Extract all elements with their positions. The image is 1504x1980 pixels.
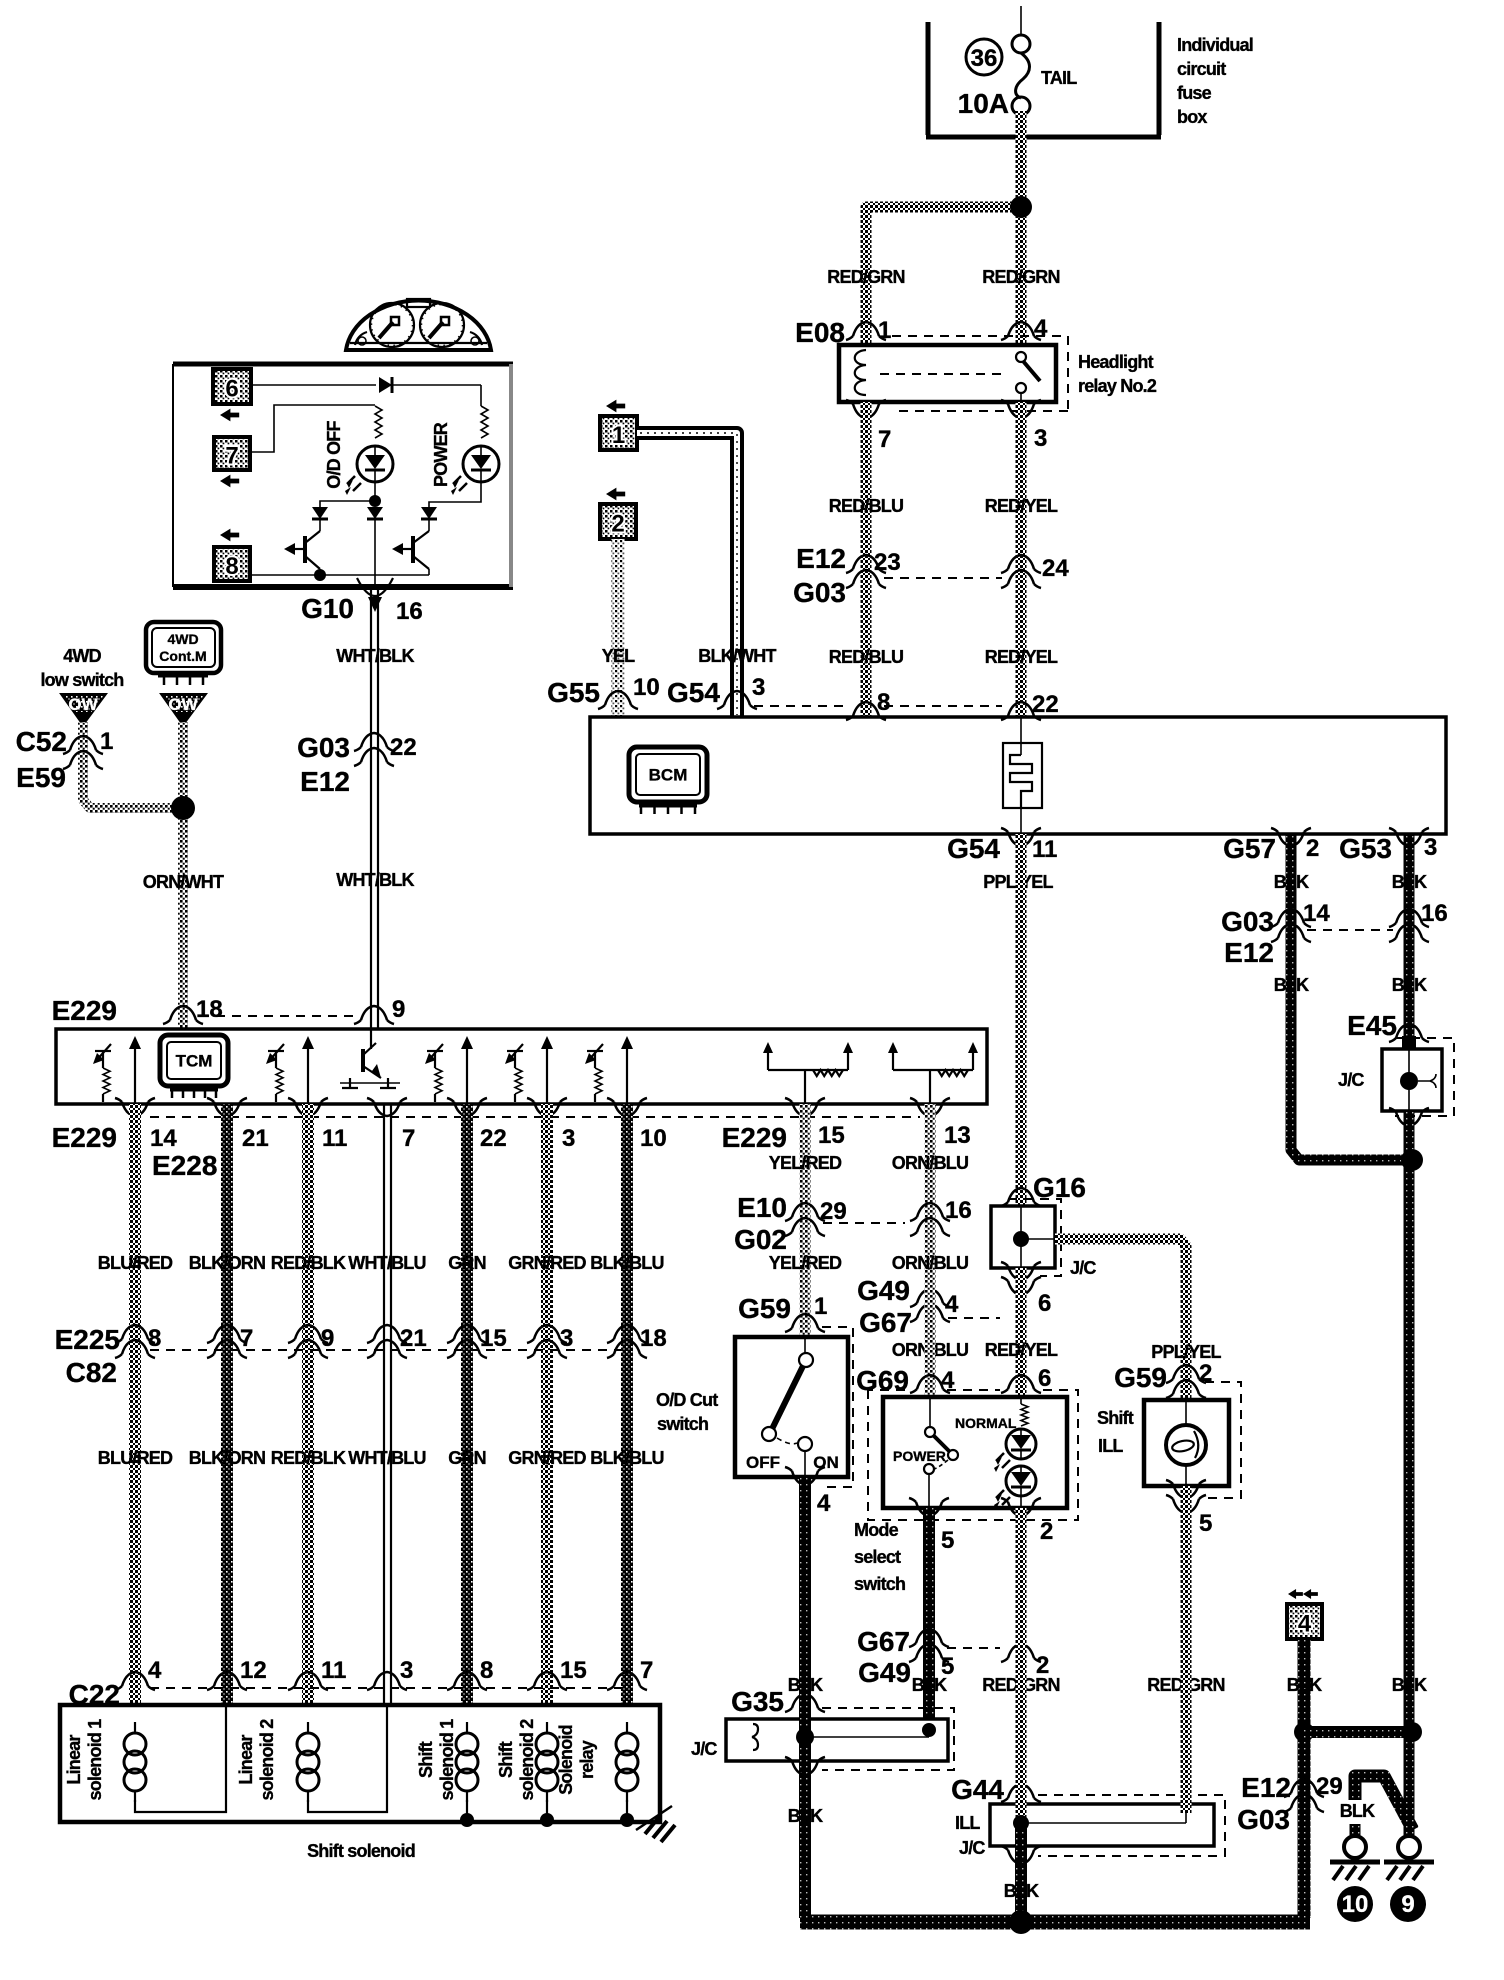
svg-text:BLK/ORN: BLK/ORN (189, 1448, 265, 1468)
wire RED/BLU relay to BCM (861, 402, 872, 717)
dashed outline headlight relay (892, 336, 1068, 411)
ground bus wire (800, 1915, 1310, 1930)
E45 internal wire and junction (1400, 1049, 1436, 1111)
junction 4WD wires (171, 796, 195, 820)
svg-text:7: 7 (225, 443, 238, 470)
wire YEL/RED TCM-15 to O/D cut (800, 1104, 811, 1337)
svg-text:C82: C82 (66, 1357, 117, 1388)
solenoid labels (rotated) (64, 1719, 597, 1801)
svg-text:RED/BLK: RED/BLK (271, 1448, 346, 1468)
svg-text:4: 4 (945, 1291, 959, 1318)
svg-text:5: 5 (941, 1527, 954, 1554)
connector C52/E59 pin 1 (16, 726, 114, 793)
connector E229/E228 pin 10 (607, 1098, 667, 1152)
svg-text:4: 4 (148, 1657, 162, 1684)
connector G54 pin 3 (667, 674, 765, 709)
connector G69 pin 6 (1001, 1365, 1051, 1393)
connector G03/E12 pin 16 (1389, 900, 1448, 942)
svg-text:OW: OW (68, 695, 98, 714)
G16 J/C box (991, 1206, 1055, 1268)
label G03 E12 right (1221, 906, 1274, 968)
svg-text:8: 8 (225, 553, 238, 580)
connector E229/E228 pin 7 (367, 1098, 415, 1152)
wire BLK G57-2 to corner (1291, 834, 1404, 1160)
chassis hatch bottom right (636, 1806, 675, 1842)
svg-text:10: 10 (633, 674, 660, 701)
wire BLK mode-5 to G35 (923, 1508, 935, 1730)
wire solenoid column x=467 (461, 1104, 473, 1705)
connector 8 (cluster) (214, 547, 250, 581)
solenoid common rail dots (460, 1800, 634, 1827)
connector below O/D pin 4 (785, 1467, 831, 1517)
O/D OFF LED (345, 446, 393, 495)
svg-text:E12: E12 (1224, 937, 1274, 968)
connector 2 (600, 488, 636, 539)
connector G03/E12 pin 22 (297, 732, 417, 797)
svg-text:switch: switch (854, 1574, 905, 1594)
wire WHT/BLK cluster to TCM (double line) (371, 587, 378, 1029)
ground branch hook to bulb 10 (1355, 1776, 1413, 1830)
svg-text:YEL: YEL (602, 646, 635, 666)
wire color labels row2 (98, 1448, 664, 1468)
labels YEL/RED ORN/BLU (769, 1153, 968, 1173)
svg-text:Individual: Individual (1177, 35, 1253, 55)
svg-text:E59: E59 (16, 762, 66, 793)
mode select switch box (883, 1397, 1067, 1508)
svg-text:2: 2 (1306, 835, 1319, 862)
svg-text:O/D Cut: O/D Cut (656, 1390, 718, 1410)
connector E12/G03 pin 23 (846, 549, 901, 588)
wire PPL/YEL BCM to G16 (1016, 834, 1027, 1205)
transistor left (O/D) (284, 519, 320, 575)
fuse 36 10A TAIL (958, 6, 1078, 119)
dashed link below TCM (150, 1116, 920, 1118)
svg-text:4: 4 (817, 1490, 831, 1517)
svg-text:E228: E228 (152, 1150, 217, 1181)
connector E225/C82 pin 9 (288, 1325, 334, 1358)
label Shift ILL (1097, 1408, 1134, 1456)
dashed link 23-24 (884, 577, 1002, 579)
connector hat below E45 (1389, 1108, 1429, 1126)
svg-text:22: 22 (480, 1125, 507, 1152)
svg-text:G03: G03 (297, 732, 350, 763)
linear solenoid 2 coil (297, 1722, 319, 1802)
BCM internal component (1003, 717, 1042, 834)
instrument cluster icon (346, 299, 491, 350)
svg-text:BLK: BLK (1392, 872, 1427, 892)
relay switch (1016, 352, 1040, 402)
G35 internals (752, 1723, 936, 1750)
svg-text:PPL/YEL: PPL/YEL (1151, 1342, 1221, 1362)
connector E229/E228 pin 21 (207, 1098, 269, 1152)
svg-text:RED/GRN: RED/GRN (982, 267, 1059, 287)
connector E08 pin 3 (1001, 400, 1047, 452)
svg-text:8: 8 (877, 689, 890, 716)
wire from 8 to transistors (250, 569, 429, 581)
arrow below 6 (220, 409, 239, 422)
4WD Cont.M module (146, 622, 221, 685)
junction E45/G57 wires (1401, 1149, 1423, 1171)
wire RED/GRN branch to relay pin1 (866, 207, 1021, 345)
wire solenoid column x=627 (621, 1104, 633, 1705)
wire RED/GRN mode-2 into ILL J/C (1016, 1508, 1027, 1823)
connector pin 8 (BCM top) (846, 689, 890, 720)
svg-text:RED/BLU: RED/BLU (829, 496, 903, 516)
svg-text:G54: G54 (947, 833, 1000, 864)
svg-text:E12: E12 (796, 543, 846, 574)
svg-text:12: 12 (240, 1657, 267, 1684)
connector E225/C82 pin 15 (447, 1325, 507, 1358)
svg-text:solenoid 1: solenoid 1 (437, 1719, 457, 1801)
labels ILL J/C (955, 1813, 985, 1858)
svg-text:ORN/WHT: ORN/WHT (143, 872, 224, 892)
svg-text:1: 1 (814, 1293, 827, 1320)
svg-text:11: 11 (322, 1125, 347, 1152)
connector E225/C82 pin 7 (207, 1325, 253, 1358)
connector hat above E45 (1389, 1024, 1429, 1042)
svg-text:Linear: Linear (64, 1735, 84, 1785)
stub to bulb 10 (1350, 1824, 1361, 1838)
connector C22 pin 3 (367, 1657, 413, 1690)
wire BLK G53-3 to E45 (1404, 834, 1415, 1049)
svg-text:E229: E229 (52, 995, 117, 1026)
svg-text:Shift: Shift (416, 1741, 436, 1778)
dashed link 18-9 (200, 1015, 356, 1017)
TCM sensor resistors pins 15/13 (763, 1042, 853, 1104)
label 4WD low switch (40, 646, 123, 690)
svg-text:14: 14 (150, 1125, 177, 1152)
shift ILL box (1144, 1400, 1229, 1486)
svg-text:TCM: TCM (176, 1052, 213, 1071)
svg-text:BLK: BLK (788, 1806, 823, 1826)
TCM box (56, 1029, 987, 1104)
wire PPL/YEL G16 branch to shift ILL (1055, 1239, 1186, 1400)
svg-text:G59: G59 (738, 1293, 791, 1324)
svg-text:G69: G69 (856, 1365, 909, 1396)
dashed link G69 4-6 (947, 1389, 1000, 1391)
G44 dashed outline (1038, 1795, 1225, 1856)
svg-text:1: 1 (100, 728, 113, 755)
svg-text:relay No.2: relay No.2 (1078, 376, 1157, 396)
svg-text:BLK/WHT: BLK/WHT (698, 646, 776, 666)
svg-text:G49: G49 (858, 1657, 911, 1688)
svg-text:G10: G10 (301, 593, 354, 624)
connector E08 pin 4 (1001, 315, 1048, 342)
ground bulb 10 (1330, 1836, 1380, 1880)
dashed link G54-3 to 8 to 22 (754, 705, 848, 707)
ground id 9 (1390, 1886, 1426, 1922)
wire BLK E45 to grounds (1404, 1111, 1415, 1838)
svg-text:6: 6 (1038, 1290, 1051, 1317)
svg-text:YEL/RED: YEL/RED (769, 1253, 842, 1273)
dashed link 14-16 (1307, 929, 1393, 931)
connector G54 pin 11 (BCM bottom) (947, 828, 1057, 864)
svg-text:8: 8 (148, 1325, 161, 1352)
svg-text:POWER: POWER (893, 1448, 946, 1464)
svg-text:G59: G59 (1114, 1362, 1167, 1393)
svg-text:BLK/ORN: BLK/ORN (189, 1253, 265, 1273)
svg-text:G35: G35 (731, 1686, 784, 1717)
connector E229/E228 pin 14 (115, 1098, 177, 1152)
svg-text:OFF: OFF (746, 1453, 780, 1472)
connector G44 hat (1001, 1784, 1041, 1802)
svg-text:9: 9 (321, 1325, 334, 1352)
mode select LED2 (994, 1466, 1036, 1509)
svg-text:ORN/BLU: ORN/BLU (892, 1153, 968, 1173)
wire RED/GRN fuse to relay pin4 (1016, 111, 1027, 345)
connector C22 pin 8 (447, 1657, 493, 1690)
labels POWER NORMAL (893, 1415, 1017, 1464)
BCM box (590, 717, 1446, 834)
ground id 10 (1337, 1886, 1373, 1922)
wire color labels row1 (98, 1253, 664, 1273)
svg-text:10A: 10A (958, 88, 1009, 119)
svg-text:G55: G55 (547, 677, 600, 708)
svg-text:ORN/BLU: ORN/BLU (892, 1253, 968, 1273)
svg-text:23: 23 (874, 549, 901, 576)
wire solenoid column x=547 (541, 1104, 553, 1705)
svg-text:E229: E229 (52, 1122, 117, 1153)
E45 dashed outline (1395, 1038, 1454, 1116)
connector G67/G49 pin 5 (857, 1626, 954, 1688)
arrow below 7 (220, 475, 239, 488)
svg-text:14: 14 (1303, 900, 1330, 927)
shift ILL lamp (1166, 1400, 1206, 1486)
svg-text:11: 11 (321, 1657, 346, 1684)
svg-text:2: 2 (1040, 1518, 1053, 1545)
connector E229/E228 pin 3 (527, 1098, 575, 1152)
svg-text:4: 4 (1034, 315, 1048, 342)
label: Individual circuit fuse box (1177, 35, 1253, 127)
svg-text:OW: OW (168, 695, 198, 714)
svg-text:3: 3 (1424, 834, 1437, 861)
wire WHT/BLU (double line) (384, 1104, 391, 1815)
svg-text:E225: E225 (55, 1324, 120, 1355)
svg-text:6: 6 (1038, 1365, 1051, 1392)
connector G16 hat above J/C (1001, 1188, 1041, 1206)
svg-text:BLK: BLK (912, 1675, 947, 1695)
svg-text:24: 24 (1042, 555, 1069, 582)
svg-text:7: 7 (240, 1325, 253, 1352)
wire BLK connector4 to bus (1298, 1639, 1311, 1918)
svg-text:10: 10 (640, 1125, 667, 1152)
svg-text:3: 3 (752, 674, 765, 701)
connector C22 pin 4 (115, 1657, 162, 1690)
svg-text:Shift solenoid: Shift solenoid (307, 1841, 415, 1861)
4WD Cont.M pigtail OW (161, 694, 206, 725)
svg-text:21: 21 (242, 1125, 269, 1152)
svg-text:G49: G49 (857, 1275, 910, 1306)
connector C22 pin 11 (288, 1657, 346, 1690)
svg-text:RED/GRN: RED/GRN (827, 267, 904, 287)
wire from 4WD low switch (83, 722, 183, 808)
dashed link 29-16 (823, 1222, 905, 1224)
svg-text:G67: G67 (857, 1626, 910, 1657)
svg-text:2: 2 (611, 511, 624, 538)
svg-text:3: 3 (562, 1125, 575, 1152)
connector 4 (1287, 1589, 1322, 1639)
svg-text:5: 5 (1199, 1510, 1212, 1537)
connector E229 pin 18 (52, 995, 223, 1026)
svg-text:13: 13 (944, 1122, 971, 1149)
O/D OFF resistor (375, 406, 382, 438)
svg-text:1: 1 (612, 422, 625, 449)
ILL J/C internals (1013, 1813, 1186, 1831)
svg-text:box: box (1177, 107, 1207, 127)
dashed link 4-6 (948, 1317, 1000, 1319)
O/D branch node and diodes (312, 482, 383, 587)
ground bulb 9 (1384, 1836, 1434, 1880)
label Mode select switch (854, 1520, 905, 1594)
svg-text:BLK: BLK (1274, 872, 1309, 892)
connector pin 9 (TCM top) (354, 996, 405, 1024)
svg-text:3: 3 (400, 1657, 413, 1684)
svg-text:BCM: BCM (649, 766, 688, 785)
svg-text:29: 29 (1316, 1773, 1343, 1800)
svg-text:BLU/RED: BLU/RED (98, 1448, 173, 1468)
svg-text:RED/YEL: RED/YEL (985, 647, 1058, 667)
label headlight relay No.2 (1078, 352, 1157, 396)
connector E229/E228 pin 22 (447, 1098, 507, 1152)
dashed link C22 (150, 1687, 627, 1689)
svg-text:G54: G54 (667, 677, 720, 708)
connector G53 pin 3 (BCM bottom) (1339, 828, 1437, 864)
TCM driver transistors (93, 1036, 141, 1104)
connector C22 pin 12 (207, 1657, 267, 1690)
connector 1 (600, 400, 637, 450)
svg-text:7: 7 (640, 1657, 653, 1684)
svg-text:GRN/RED: GRN/RED (508, 1448, 586, 1468)
connector C22 pin 7 (607, 1657, 653, 1690)
labels OFF ON (746, 1453, 839, 1472)
svg-text:solenoid 1: solenoid 1 (85, 1719, 105, 1801)
svg-text:circuit: circuit (1177, 59, 1226, 79)
E45 J/C box (1382, 1049, 1442, 1111)
dashed link E225/C82 (150, 1349, 627, 1351)
connector G59 pin 1 (738, 1293, 827, 1332)
connector G03/E12 pin 14 (1271, 900, 1330, 942)
svg-text:15: 15 (818, 1122, 845, 1149)
svg-text:29: 29 (820, 1198, 847, 1225)
connector E225/C82 pin 21 (367, 1325, 427, 1358)
svg-text:YEL/RED: YEL/RED (769, 1153, 842, 1173)
labels ORN/BLU RED/YEL (892, 1340, 1058, 1360)
svg-text:WHT/BLU: WHT/BLU (348, 1448, 425, 1468)
svg-text:low switch: low switch (40, 670, 123, 690)
TCM input transistor (WHT/BLK) (340, 1029, 400, 1088)
shift solenoid 2 coil (536, 1722, 558, 1802)
svg-text:TAIL: TAIL (1041, 68, 1077, 88)
linear solenoid 1 coil (124, 1722, 146, 1802)
svg-text:G57: G57 (1223, 833, 1276, 864)
svg-text:G67: G67 (859, 1307, 912, 1338)
connector row E225/C82 (55, 1324, 120, 1388)
svg-text:G44: G44 (951, 1774, 1004, 1805)
connector E225/C82 pin 3 (527, 1325, 573, 1358)
connector G57 pin 2 (BCM bottom) (1223, 828, 1319, 864)
O/D cut switch box (735, 1337, 848, 1477)
svg-text:4WD: 4WD (63, 646, 101, 666)
svg-text:E12: E12 (1241, 1772, 1291, 1803)
svg-text:switch: switch (657, 1414, 708, 1434)
connector E229/E228 pin 11 (288, 1098, 347, 1152)
combination meter box (173, 364, 513, 587)
junction E45 wire low (1402, 1722, 1422, 1742)
svg-text:4: 4 (1298, 1611, 1312, 1638)
connector G55 pin 10 (547, 674, 660, 709)
connector 7 (cluster) (214, 437, 250, 470)
shift solenoid box (60, 1705, 660, 1822)
svg-text:RED/YEL: RED/YEL (985, 1340, 1058, 1360)
svg-text:BLK: BLK (1004, 1881, 1039, 1901)
G35 dashed outline (822, 1708, 954, 1770)
svg-text:BLK/BLU: BLK/BLU (590, 1253, 663, 1273)
svg-text:Solenoid: Solenoid (556, 1725, 576, 1795)
svg-text:16: 16 (945, 1197, 972, 1224)
svg-text:O/D OFF: O/D OFF (324, 421, 344, 489)
svg-text:BLK: BLK (1287, 1675, 1322, 1695)
svg-text:16: 16 (396, 598, 423, 625)
ILL J/C box (990, 1804, 1214, 1846)
wire RED/YEL relay to BCM (1016, 402, 1027, 717)
svg-text:RED/BLK: RED/BLK (271, 1253, 346, 1273)
svg-text:8: 8 (480, 1657, 493, 1684)
svg-text:J/C: J/C (1070, 1258, 1096, 1278)
svg-text:ON: ON (813, 1453, 839, 1472)
wire BLK O/D cut to ground bus (799, 1477, 811, 1918)
headlight relay No.2 box (839, 345, 1056, 402)
svg-text:ILL: ILL (955, 1813, 980, 1833)
connector E225/C82 pin 8 (115, 1325, 161, 1358)
svg-text:G02: G02 (734, 1224, 787, 1255)
wire BLK/WHT connector1 to BCM (637, 433, 737, 717)
O/D cut switch dashed outline (820, 1327, 853, 1487)
svg-text:E12: E12 (300, 766, 350, 797)
svg-text:Linear: Linear (236, 1735, 256, 1785)
link to E45 wire (1304, 1726, 1409, 1738)
relay internal dashed link (880, 373, 1002, 375)
G16 internal junction (1013, 1206, 1055, 1268)
svg-text:E10: E10 (737, 1192, 787, 1223)
svg-text:9: 9 (392, 996, 405, 1023)
connector row E229/E228 below TCM (52, 1122, 218, 1181)
label E12 G03 (793, 543, 846, 608)
4WD low switch pigtail OW (61, 694, 106, 725)
linear solenoid 2 return (308, 1705, 387, 1812)
svg-text:RED/YEL: RED/YEL (985, 496, 1058, 516)
svg-text:18: 18 (640, 1325, 667, 1352)
O/D cut switch contacts (762, 1337, 813, 1477)
svg-text:GRN: GRN (448, 1448, 486, 1468)
svg-text:10: 10 (1342, 1891, 1369, 1918)
transistor right (POWER) (392, 519, 429, 575)
connector E225/C82 pin 18 (607, 1325, 667, 1358)
svg-text:22: 22 (1032, 691, 1059, 718)
svg-text:9: 9 (1401, 1891, 1414, 1918)
svg-text:BLK/BLU: BLK/BLU (590, 1448, 663, 1468)
svg-text:3: 3 (1034, 425, 1047, 452)
connector below G16 pin 6 (1001, 1262, 1051, 1317)
svg-text:Shift: Shift (496, 1741, 516, 1778)
connector below shift ILL pin 5 (1166, 1480, 1212, 1537)
wire RED/YEL G16 to mode select (1016, 1268, 1027, 1397)
connector pin 22 (BCM top) (1001, 691, 1059, 720)
svg-text:relay: relay (577, 1740, 597, 1779)
connector G35 hat (785, 1694, 825, 1712)
cluster wiring from 6 with diode (251, 377, 481, 406)
connector G10 pin 16 (301, 578, 423, 625)
arrow above 8 (220, 529, 239, 542)
